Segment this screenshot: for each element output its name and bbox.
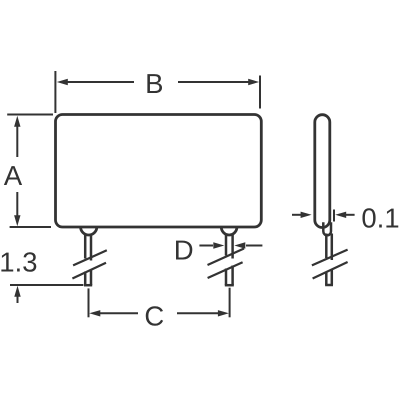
label A <box>4 166 22 185</box>
label B <box>147 74 162 93</box>
component case outline (side view) <box>315 115 330 228</box>
side lead wire (upper segment) <box>326 234 332 261</box>
dimension 1.3 arrowhead <box>14 286 20 297</box>
dimension 0.1 arrow shafts <box>292 214 355 216</box>
right lead wire (upper segment) <box>226 234 233 258</box>
label D <box>176 241 192 260</box>
dimension A top arrowhead <box>14 116 20 127</box>
dimension C right arrowhead <box>218 310 229 316</box>
left lead break marks <box>72 250 106 278</box>
dimension C left arrowhead <box>89 310 100 316</box>
label C <box>146 306 163 325</box>
label 1.3 <box>1 252 36 271</box>
dimension D right arrowhead <box>234 242 245 248</box>
dimension C extension lines <box>89 288 230 318</box>
side lead wire (lower segment with end cap) <box>325 270 333 286</box>
right lead wire (lower segment with end cap) <box>225 266 234 286</box>
dimension 1.3 tick line <box>10 284 83 286</box>
component body outline (front view) <box>56 115 262 228</box>
dimension 0.1 tick line <box>333 210 335 222</box>
dimension 1.3 arrow shaft <box>17 295 19 304</box>
label 0.1 <box>362 208 398 227</box>
dimension A bottom arrowhead <box>14 215 20 226</box>
dimension D left arrowhead <box>213 242 224 248</box>
dimension C line segments <box>99 312 220 314</box>
dimension 0.1 left arrowhead <box>301 212 312 218</box>
left lead wire (lower segment with end cap) <box>84 269 92 285</box>
dimension B line segments <box>66 81 250 83</box>
right lead bead (solder fillet at case bottom) <box>221 227 237 235</box>
side lead bead (neck below case) <box>323 222 331 235</box>
dimension A tick lines <box>7 115 53 228</box>
left lead bead (solder fillet at case bottom) <box>81 227 97 235</box>
dimension B right arrowhead <box>248 79 259 85</box>
dimension B left arrowhead <box>57 79 68 85</box>
side lead break marks <box>312 250 348 279</box>
right lead break marks <box>208 249 245 279</box>
dimension 0.1 right arrowhead <box>335 212 346 218</box>
dimension D arrow shafts <box>199 245 262 247</box>
left lead wire (upper segment) <box>85 234 91 260</box>
dimension B extension lines <box>55 71 260 113</box>
dimension A line segments <box>16 124 18 218</box>
